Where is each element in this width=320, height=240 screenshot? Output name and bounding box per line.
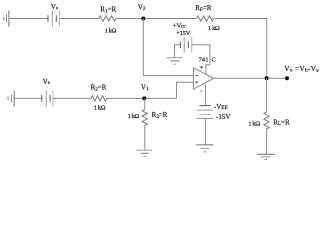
- ground (below -VEE): [196, 145, 213, 152]
- battery +Vcc: [175, 37, 210, 58]
- battery -VEE: [197, 106, 214, 145]
- svg-text:1 kΩ: 1 kΩ: [105, 28, 117, 35]
- svg-text:741: 741: [199, 56, 209, 63]
- op-amp input + marker: [196, 81, 198, 83]
- battery Vb: [42, 90, 53, 106]
- svg-text:Va: Va: [51, 4, 58, 11]
- svg-text:-15V: -15V: [216, 113, 230, 121]
- wire: [59, 18, 98, 20]
- svg-text:Vo =Vb-Va: Vo =Vb-Va: [284, 64, 319, 74]
- svg-text:1 kΩ: 1 kΩ: [208, 25, 220, 32]
- svg-text:1 kΩ: 1 kΩ: [128, 113, 140, 120]
- resistor RF: [197, 16, 214, 21]
- node V1: [142, 96, 146, 100]
- ground (sideways, top-left): [4, 11, 9, 27]
- op-amp V+ pin: [206, 45, 210, 75]
- resistor R1: [99, 16, 116, 21]
- ground (sideways, bottom-left): [8, 90, 14, 106]
- wire: [266, 19, 268, 79]
- svg-text:R1=R: R1=R: [100, 6, 116, 15]
- svg-text:+Vcc: +Vcc: [173, 23, 186, 30]
- svg-text:RF=R: RF=R: [195, 4, 212, 13]
- resistor R2: [91, 96, 107, 101]
- svg-text:RL=R: RL=R: [273, 118, 290, 127]
- wire (output): [214, 77, 288, 79]
- wire (V1 to non-inverting input): [177, 82, 194, 98]
- svg-text:-VEE: -VEE: [214, 103, 228, 111]
- op-amp V- pin: [204, 85, 206, 106]
- svg-text:C: C: [212, 56, 216, 63]
- ground (below R3): [137, 150, 152, 156]
- wire: [9, 18, 48, 20]
- wire (V2 down to inverting input): [143, 19, 193, 76]
- svg-text:Vb: Vb: [43, 79, 51, 86]
- wire: [53, 97, 91, 99]
- svg-text:+15V: +15V: [176, 30, 190, 37]
- op-amp supply - marker: [200, 90, 202, 92]
- ground (below +Vcc): [167, 58, 183, 64]
- wire: [107, 97, 177, 99]
- op-amp input - marker: [196, 74, 198, 76]
- node (output terminal): [285, 76, 289, 80]
- ground (below RL): [257, 154, 275, 159]
- resistor R3: [142, 98, 147, 150]
- svg-text:R2=R: R2=R: [91, 84, 107, 93]
- node (output junction): [265, 76, 269, 80]
- wire: [214, 18, 267, 20]
- wire: [14, 97, 42, 99]
- wire: [116, 18, 197, 20]
- resistor RL: [264, 78, 269, 154]
- svg-text:1 kΩ: 1 kΩ: [94, 104, 106, 111]
- svg-text:1 kΩ: 1 kΩ: [248, 121, 260, 128]
- op-amp supply + marker: [200, 66, 202, 68]
- svg-text:R3=R: R3=R: [152, 111, 168, 120]
- op-amp U1 (741C): [194, 68, 214, 89]
- node V2: [141, 17, 145, 21]
- battery Va: [48, 11, 59, 27]
